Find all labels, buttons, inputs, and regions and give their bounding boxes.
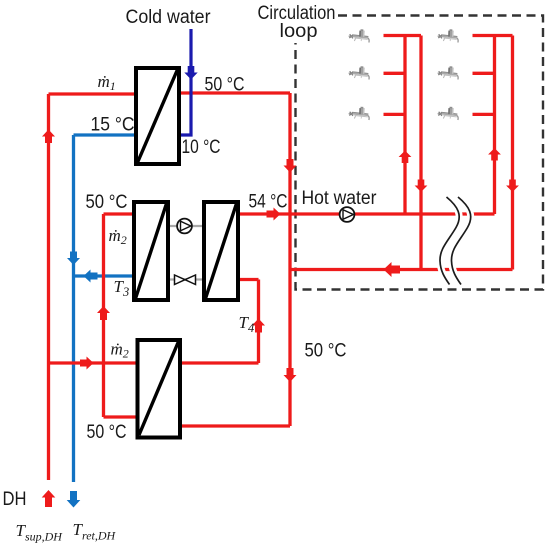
arrow red up to HX2	[97, 306, 110, 320]
wire faucet stub g2 r3	[473, 113, 495, 116]
pipe break squiggles	[440, 197, 471, 285]
arrow blue down return join	[67, 252, 80, 266]
wire HX4 bottom right	[180, 424, 290, 427]
wire riser D	[511, 36, 514, 270]
arrow red down hot riser lower	[284, 368, 297, 382]
heat exchanger U4 (bottom)	[138, 340, 181, 438]
wire blue main return vertical	[72, 135, 75, 482]
valve V1 (between HX2 and HX3)	[175, 275, 196, 285]
wire pump line HX2-HX3	[168, 225, 206, 227]
wire faucet stub g2 r2	[473, 72, 495, 75]
arrow red up riser A	[399, 151, 412, 164]
faucet icons	[348, 29, 369, 43]
wire T4 vertical	[257, 280, 260, 364]
pump P1 (between HX2 and HX3)	[177, 219, 192, 234]
arrow red up riser C	[488, 148, 501, 161]
svg-text:ṁ1: ṁ1	[98, 72, 116, 93]
grey intermediate loop lines	[168, 226, 206, 280]
wire HX4 top right	[180, 361, 259, 364]
svg-text:50 °C: 50 °C	[305, 340, 347, 361]
arrow red right to HX4	[80, 357, 94, 370]
wire HX4 bottom left	[104, 415, 140, 418]
wire HX1 15C port	[74, 133, 137, 136]
wire riser group1 top	[384, 34, 422, 37]
wire T3 HX2 return	[74, 274, 135, 277]
svg-text:50 °C: 50 °C	[86, 192, 128, 213]
wire riser A	[403, 36, 406, 215]
svg-text:Tret,DH: Tret,DH	[73, 520, 117, 543]
arrows	[42, 130, 519, 508]
wire HX1 50C out	[179, 91, 290, 94]
pump P2 (hot water circulation)	[340, 207, 355, 222]
wire HX2 top left port	[104, 212, 135, 215]
wire cold water drop	[179, 29, 191, 135]
wire supply branch to HX4	[49, 361, 140, 364]
wire DH supply main vertical	[47, 94, 50, 480]
wire riser C	[493, 36, 496, 215]
arrow red up main supply	[42, 130, 55, 144]
svg-text:ṁ2: ṁ2	[111, 340, 129, 361]
svg-text:10 °C: 10 °C	[182, 137, 221, 158]
arrow red up T4	[252, 319, 265, 333]
circulation loop dashed box	[296, 16, 544, 290]
svg-text:Hot water: Hot water	[302, 188, 378, 209]
wire branch vertical to HX2	[102, 214, 105, 417]
arrow red left circulation return	[384, 262, 401, 277]
arrow navy down cold water	[184, 66, 197, 80]
svg-text:15 °C: 15 °C	[91, 115, 135, 136]
wire HX3 bottom right port	[238, 278, 259, 281]
svg-text:DH: DH	[3, 489, 27, 510]
wire riser group2 top	[473, 34, 513, 37]
arrow red right 54C	[267, 208, 281, 221]
wire HX3 54C out to hot water	[238, 212, 495, 215]
wire circulation return	[290, 268, 513, 271]
arrow red down hot riser upper	[284, 159, 297, 173]
red supply lines	[49, 36, 513, 481]
navy cold water line	[179, 29, 191, 135]
wire faucet stub g1 r3	[384, 113, 406, 116]
svg-text:T4: T4	[239, 313, 255, 335]
svg-text:50 °C: 50 °C	[205, 74, 245, 95]
arrow red down riser B	[415, 180, 428, 193]
arrow blue left T3	[84, 270, 98, 283]
svg-text:Cold water: Cold water	[126, 7, 212, 28]
wire valve line HX2-HX3	[168, 278, 206, 280]
wire faucet stub g1 r2	[384, 72, 406, 75]
svg-text:T3: T3	[114, 277, 130, 299]
svg-text:loop: loop	[280, 21, 318, 42]
svg-text:Tsup,DH: Tsup,DH	[16, 521, 64, 544]
arrow blue down DH bottom	[67, 491, 81, 508]
blue return lines	[74, 135, 137, 482]
wire riser B	[419, 36, 422, 270]
wire supply to HX1	[49, 92, 137, 95]
wire main hot riser vertical	[288, 93, 291, 426]
heat exchanger U1 (top, cold water)	[136, 68, 179, 164]
heat exchanger U3 (middle right)	[204, 202, 238, 300]
svg-text:54 °C: 54 °C	[249, 191, 288, 212]
arrow red down riser D	[506, 180, 519, 193]
svg-text:50 °C: 50 °C	[87, 422, 127, 443]
arrow red up DH bottom	[42, 490, 56, 507]
svg-text:ṁ2: ṁ2	[109, 226, 127, 247]
heat exchanger U2 (middle left)	[134, 202, 168, 300]
